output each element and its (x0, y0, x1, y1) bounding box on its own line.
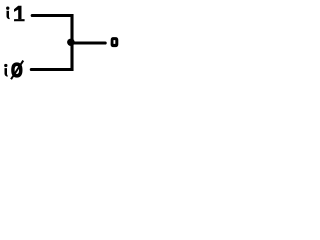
wire i0 to junction (bottom horizontal) (31, 68, 72, 71)
vertical bus wire joining top and bottom (70, 14, 73, 71)
output wire (71, 41, 105, 44)
output label o (111, 37, 119, 47)
input label i0 (slashed zero) (4, 60, 24, 80)
input label i1 (6, 6, 25, 22)
junction dot (67, 39, 75, 46)
wire i1 to junction (top horizontal) (32, 14, 72, 17)
